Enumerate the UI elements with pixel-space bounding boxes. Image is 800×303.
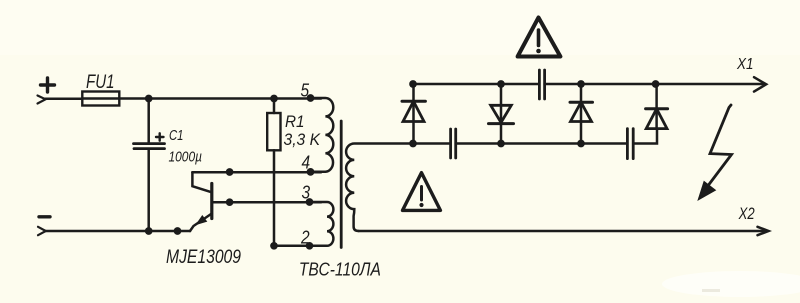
svg-text:5: 5 [301, 81, 310, 101]
svg-text:X2: X2 [738, 204, 755, 223]
svg-text:FU1: FU1 [86, 72, 115, 93]
svg-text:2: 2 [300, 228, 309, 248]
svg-text:MJE13009: MJE13009 [166, 247, 241, 268]
svg-text:3: 3 [302, 183, 311, 203]
svg-text:ТВС-110ЛА: ТВС-110ЛА [299, 259, 381, 279]
svg-text:X1: X1 [736, 56, 753, 73]
svg-text:4: 4 [302, 152, 311, 172]
svg-text:R1: R1 [285, 112, 305, 131]
svg-text:1000µ: 1000µ [169, 149, 203, 166]
svg-text:3,3 K: 3,3 K [284, 130, 321, 149]
svg-text:C1: C1 [169, 128, 184, 144]
